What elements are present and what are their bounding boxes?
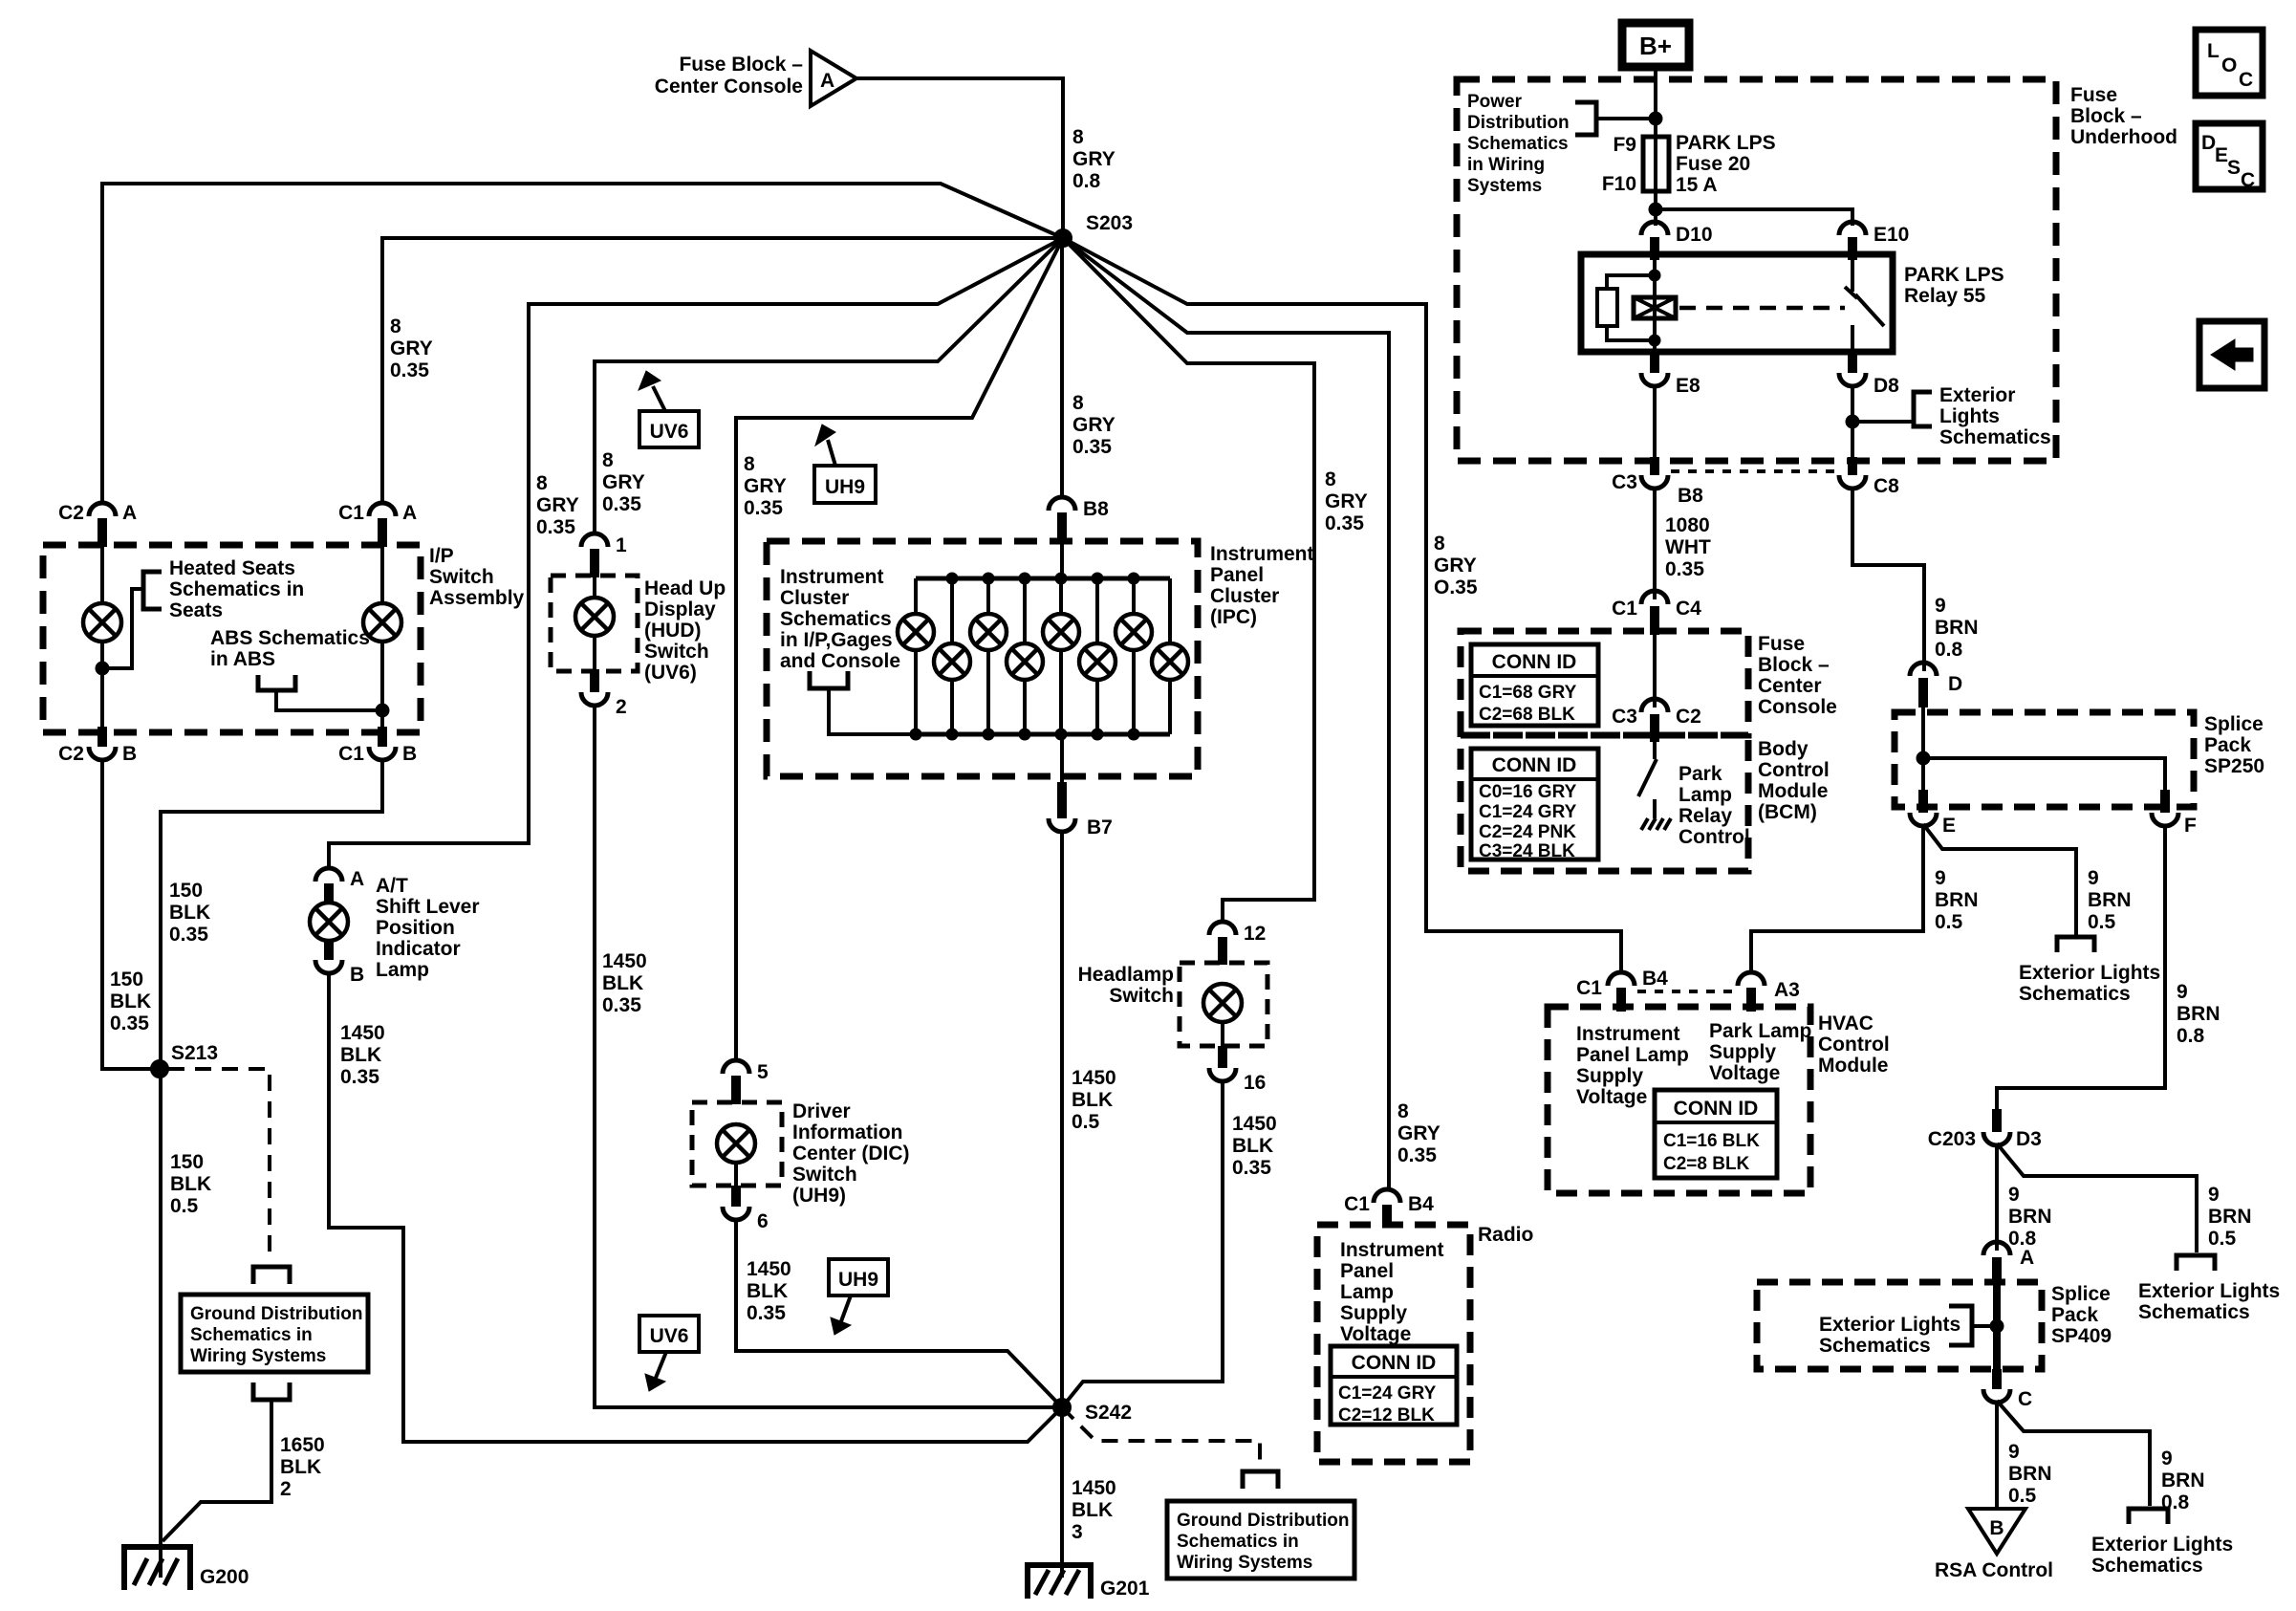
svg-text:(BCM): (BCM) <box>1758 801 1817 823</box>
svg-text:0.5: 0.5 <box>1935 911 1963 933</box>
svg-text:1080: 1080 <box>1665 514 1710 536</box>
label 150 BLK 0.35 (left) <box>110 969 151 1034</box>
svg-text:F9: F9 <box>1613 134 1636 156</box>
dashed box DIC switch <box>692 1102 782 1186</box>
connector F <box>2152 790 2197 837</box>
svg-text:Voltage: Voltage <box>1576 1086 1647 1108</box>
svg-text:S203: S203 <box>1086 212 1133 234</box>
label Exterior Lights Schematics (below SP250) <box>2019 962 2160 1005</box>
svg-text:0.35: 0.35 <box>536 516 575 538</box>
wire D3 to A (SP409) <box>1995 1143 1999 1251</box>
svg-text:UH9: UH9 <box>838 1269 878 1291</box>
svg-text:0.35: 0.35 <box>1397 1144 1437 1166</box>
lamp DIC switch <box>717 1124 755 1163</box>
svg-text:Instrument: Instrument <box>1576 1023 1680 1045</box>
connector A (A/T lamp) <box>315 868 364 904</box>
label Park Lamp Relay Control <box>1679 763 1750 848</box>
svg-text:(HUD): (HUD) <box>644 620 701 642</box>
svg-text:C1=68 GRY: C1=68 GRY <box>1479 683 1577 703</box>
splice S242 <box>1053 1399 1132 1424</box>
svg-text:I/P: I/P <box>429 545 454 567</box>
wire D through splice pack to E <box>1921 708 1925 811</box>
svg-text:in I/P,Gages: in I/P,Gages <box>780 629 893 651</box>
svg-text:Schematics: Schematics <box>1939 426 2051 448</box>
wire bracket to B+ feed <box>1596 117 1656 120</box>
IPC bottom bus <box>916 732 1170 737</box>
svg-text:C1: C1 <box>1576 977 1602 999</box>
svg-text:Relay: Relay <box>1679 805 1732 827</box>
splice S203 <box>1054 212 1133 247</box>
label Power Distribution Schematics in Wiring Systems <box>1467 92 1570 196</box>
label ABS Schematics in ABS <box>210 627 370 670</box>
svg-text:3: 3 <box>1072 1521 1083 1543</box>
svg-text:8: 8 <box>390 316 401 337</box>
svg-text:Park: Park <box>1679 763 1722 785</box>
wire C8 to D connector <box>1852 487 1924 671</box>
svg-text:150: 150 <box>170 1151 204 1173</box>
wire C1/A to lamp <box>380 545 384 604</box>
wire B8 into IPC top bus <box>1060 543 1064 578</box>
svg-text:BLK: BLK <box>747 1280 788 1302</box>
label Splice Pack SP250 <box>2204 713 2264 777</box>
svg-text:Radio: Radio <box>1478 1224 1533 1246</box>
wire C2/B down to S213 <box>102 758 159 1069</box>
bracket ground distribution (S242) <box>1243 1471 1278 1489</box>
svg-text:BRN: BRN <box>1935 889 1979 911</box>
bracket exterior lights (inside SP409) <box>1949 1306 1972 1345</box>
svg-text:8: 8 <box>744 453 755 475</box>
svg-text:E: E <box>2215 144 2228 166</box>
wire C branch to exterior lights <box>1997 1401 2150 1506</box>
node junction on D8 wire <box>1846 415 1859 428</box>
svg-text:Fuse: Fuse <box>1758 633 1805 655</box>
label 1450 BLK 0.35 (HUD wire) <box>602 950 647 1016</box>
svg-text:Exterior Lights: Exterior Lights <box>2138 1280 2280 1302</box>
svg-text:Panel: Panel <box>1210 564 1264 586</box>
svg-text:BRN: BRN <box>2088 889 2132 911</box>
svg-text:Center: Center <box>1758 675 1822 697</box>
label Park Lamp Supply Voltage (HVAC) <box>1709 1020 1811 1084</box>
IPC top bus <box>916 577 1170 581</box>
svg-text:C4: C4 <box>1676 598 1701 620</box>
CONN ID box (fuse block center console) <box>1471 644 1598 726</box>
svg-text:Heated Seats: Heated Seats <box>169 557 295 579</box>
lamp HUD switch <box>575 598 614 636</box>
svg-text:0.35: 0.35 <box>1072 436 1112 458</box>
wire E down to HVAC A3 <box>1751 824 1923 974</box>
svg-text:BRN: BRN <box>2008 1206 2052 1228</box>
label 150 BLK 0.35 (right) <box>169 880 210 946</box>
dashed wire S242 to ground distribution bracket (right) <box>1062 1407 1260 1468</box>
connector A (SP409) <box>1983 1242 2034 1282</box>
node junction at power distribution tap <box>1649 112 1662 125</box>
wire A/T B to S242 <box>329 971 1062 1442</box>
label Driver Information Center (DIC) Switch (UH9) <box>792 1100 910 1207</box>
svg-text:Console: Console <box>1758 696 1837 718</box>
svg-text:0.35: 0.35 <box>169 924 208 946</box>
wire S203 to C1/A <box>382 238 1063 505</box>
bracket power distribution <box>1575 102 1596 135</box>
svg-text:Supply: Supply <box>1709 1041 1776 1063</box>
lamp IPC top 3 <box>1043 578 1079 734</box>
svg-text:A: A <box>820 70 834 92</box>
label PARK LPS Relay 55 <box>1904 264 2004 307</box>
svg-text:B4: B4 <box>1642 968 1668 990</box>
label 1650 BLK 2 <box>280 1434 325 1500</box>
svg-text:GRY: GRY <box>1072 414 1116 436</box>
svg-text:Exterior Lights: Exterior Lights <box>2019 962 2160 984</box>
svg-text:Block –: Block – <box>2070 105 2142 127</box>
wire C1/C4 through fuse block <box>1653 635 1657 708</box>
svg-text:8: 8 <box>1325 468 1336 490</box>
label box UH9 (bottom) with arrow <box>829 1259 888 1335</box>
label 8 GRY 0.8 <box>1072 126 1116 192</box>
svg-text:A: A <box>2020 1247 2034 1269</box>
svg-text:Fuse 20: Fuse 20 <box>1676 153 1750 175</box>
relay coil resistor branch <box>1597 270 1660 346</box>
label Splice Pack SP409 <box>2051 1283 2112 1347</box>
label Exterior Lights Schematics (inside SP409) <box>1819 1314 1960 1357</box>
connector B7 (IPC) <box>1049 734 1113 838</box>
svg-text:BRN: BRN <box>2208 1206 2252 1228</box>
wire ground distribution to G200 <box>162 1400 271 1541</box>
label 1450 BLK 0.35 (A/T wire) <box>340 1022 385 1088</box>
svg-text:Center (DIC): Center (DIC) <box>792 1143 910 1165</box>
lamp IPC top 2 <box>970 578 1007 734</box>
wire S213 down to G200 <box>159 1069 162 1562</box>
label 9 BRN 0.8 (C branch) <box>2161 1448 2205 1513</box>
svg-text:BRN: BRN <box>2177 1003 2220 1025</box>
node dots IPC top bus <box>946 573 1139 584</box>
dashed wire S213 to ground distribution bracket <box>168 1069 270 1262</box>
wire pin1 to HUD lamp <box>593 577 596 599</box>
svg-text:D3: D3 <box>2016 1128 2042 1150</box>
svg-text:A/T: A/T <box>376 875 408 897</box>
svg-text:B7: B7 <box>1087 816 1113 838</box>
svg-text:A: A <box>402 502 417 524</box>
label Heated Seats Schematics in Seats <box>169 557 304 621</box>
svg-text:GRY: GRY <box>536 494 579 516</box>
label 8 GRY O.35 (HVAC wire) <box>1434 533 1478 599</box>
svg-text:Lamp: Lamp <box>1340 1281 1394 1303</box>
svg-text:Panel: Panel <box>1340 1260 1394 1282</box>
svg-text:Body: Body <box>1758 738 1809 760</box>
bracket exterior lights (underhood) <box>1914 392 1932 426</box>
label 8 GRY 0.35 (C1 wire) <box>390 316 433 381</box>
svg-text:S213: S213 <box>171 1042 218 1064</box>
svg-text:B: B <box>122 743 137 765</box>
wire E8 down to C3/B8 <box>1653 384 1657 474</box>
svg-text:0.8: 0.8 <box>2177 1025 2205 1047</box>
svg-text:8: 8 <box>1434 533 1445 555</box>
node dots IPC bottom bus <box>910 729 1139 740</box>
dashed box Body Control Module <box>1461 735 1748 871</box>
svg-text:L: L <box>2207 40 2220 62</box>
svg-text:Seats: Seats <box>169 599 223 621</box>
svg-text:C1: C1 <box>338 743 364 765</box>
connector triangle A Fuse Block Center Console <box>655 51 856 106</box>
svg-text:Switch: Switch <box>1109 985 1174 1007</box>
svg-text:0.35: 0.35 <box>390 359 429 381</box>
lamp I/P switch right <box>363 603 401 642</box>
bracket heated seats schematics <box>143 572 162 609</box>
svg-text:O.35: O.35 <box>1434 577 1478 599</box>
wire S203 to DIC switch <box>736 238 1063 1062</box>
connector C203/D3 <box>1928 1109 2042 1150</box>
svg-text:Switch: Switch <box>792 1164 857 1186</box>
svg-text:Supply: Supply <box>1340 1302 1407 1324</box>
label A/T Shift Lever Position Indicator Lamp <box>376 875 480 981</box>
svg-text:D: D <box>1948 673 1962 695</box>
connector D (splice pack SP250) <box>1910 663 1962 708</box>
svg-text:0.35: 0.35 <box>1665 558 1704 580</box>
wire C3/B8 to C1/C4 <box>1653 487 1657 599</box>
svg-text:150: 150 <box>110 969 143 991</box>
bracket exterior lights (below SP250) <box>2057 937 2094 952</box>
CONN ID box (HVAC) <box>1655 1090 1777 1178</box>
label 8 GRY 0.35 (IPC wire) <box>1072 392 1116 458</box>
label 1450 BLK 0.35 (DIC wire) <box>747 1258 791 1324</box>
wire S203 to HUD switch <box>595 238 1063 535</box>
node junction SP409 <box>1990 1319 2004 1333</box>
svg-text:Control: Control <box>1758 759 1830 781</box>
svg-text:Lamp: Lamp <box>1679 784 1732 806</box>
svg-text:150: 150 <box>169 880 203 902</box>
svg-text:1450: 1450 <box>1232 1113 1277 1135</box>
svg-text:GRY: GRY <box>744 475 787 497</box>
label Body Control Module (BCM) <box>1758 738 1830 823</box>
svg-text:Fuse Block –: Fuse Block – <box>679 54 803 76</box>
svg-text:WHT: WHT <box>1665 536 1711 558</box>
connector pin 12 (headlamp) <box>1209 922 1266 965</box>
connector E10 <box>1839 222 1909 260</box>
svg-text:8: 8 <box>536 472 548 494</box>
svg-text:8: 8 <box>1397 1100 1409 1122</box>
label box UV6 (top) with arrow <box>639 371 699 447</box>
svg-text:0.5: 0.5 <box>1072 1111 1100 1133</box>
dashed box Head Up Display switch <box>551 576 638 671</box>
svg-text:S242: S242 <box>1085 1402 1132 1424</box>
svg-text:BRN: BRN <box>2008 1463 2052 1485</box>
svg-text:BLK: BLK <box>602 972 643 994</box>
svg-text:9: 9 <box>1935 867 1946 889</box>
svg-text:RSA Control: RSA Control <box>1935 1559 2053 1581</box>
svg-text:GRY: GRY <box>1072 148 1116 170</box>
svg-text:1650: 1650 <box>280 1434 325 1456</box>
connector C3/B8 (underhood output) <box>1612 457 1703 507</box>
bracket exterior lights (bottom right) <box>2129 1509 2168 1524</box>
bracket exterior lights (right of SP409) <box>2177 1255 2215 1271</box>
box Ground Distribution Schematics in Wiring Systems (right) <box>1167 1501 1354 1578</box>
label Instrument Panel Lamp Supply Voltage (HVAC) <box>1576 1023 1689 1108</box>
wire S203 to C2/A <box>102 184 1063 505</box>
connector D8 <box>1839 352 1899 397</box>
label 9 BRN 0.8 (C8 wire) <box>1935 595 1979 661</box>
box DESC <box>2196 123 2263 191</box>
svg-text:B+: B+ <box>1639 32 1672 60</box>
svg-text:C2: C2 <box>1676 706 1701 728</box>
svg-text:Exterior: Exterior <box>1939 384 2015 406</box>
svg-text:D: D <box>2201 132 2216 154</box>
dashed box I/P switch assembly / heated seats <box>43 545 421 732</box>
svg-text:Instrument: Instrument <box>1210 543 1314 565</box>
wire D10 through relay coil <box>1653 254 1657 352</box>
wire junction to heated-seats bracket <box>102 589 143 668</box>
svg-text:9: 9 <box>2088 867 2099 889</box>
svg-text:Voltage: Voltage <box>1340 1323 1411 1345</box>
connector C3/C2 <box>1612 699 1701 742</box>
svg-text:0.35: 0.35 <box>747 1302 786 1324</box>
svg-text:1450: 1450 <box>340 1022 385 1044</box>
svg-text:Park Lamp: Park Lamp <box>1709 1020 1811 1042</box>
label 150 BLK 0.5 <box>170 1151 211 1217</box>
svg-text:Splice: Splice <box>2204 713 2264 735</box>
svg-text:Ground Distribution: Ground Distribution <box>190 1304 362 1324</box>
ground symbol BCM <box>1641 818 1671 830</box>
svg-text:B: B <box>402 743 417 765</box>
ground G201 <box>1028 1565 1150 1600</box>
connector B (A/T lamp) <box>315 939 364 986</box>
svg-text:C203: C203 <box>1928 1128 1976 1150</box>
label I/P Switch Assembly <box>429 545 525 609</box>
svg-text:15 A: 15 A <box>1676 174 1718 196</box>
svg-text:A: A <box>122 502 137 524</box>
svg-text:1: 1 <box>616 534 627 556</box>
svg-text:S: S <box>2227 157 2241 179</box>
svg-text:Switch: Switch <box>429 566 494 588</box>
label 9 BRN 0.5 (branch wire) <box>2088 867 2132 933</box>
connector C2/A <box>58 502 137 547</box>
svg-text:(IPC): (IPC) <box>1210 606 1257 628</box>
svg-text:C1: C1 <box>338 502 364 524</box>
connector C1/B4 (radio) <box>1344 1189 1434 1227</box>
svg-text:Relay 55: Relay 55 <box>1904 285 1986 307</box>
label Headlamp Switch <box>1078 964 1174 1007</box>
svg-text:C1: C1 <box>1344 1193 1370 1215</box>
svg-text:Schematics in: Schematics in <box>190 1325 313 1345</box>
svg-text:BLK: BLK <box>1232 1135 1273 1157</box>
connector C1/B4 (HVAC) <box>1576 968 1668 1012</box>
svg-text:GRY: GRY <box>602 471 645 493</box>
wire junction to exterior lights bracket <box>1852 420 1914 424</box>
svg-text:(UH9): (UH9) <box>792 1185 846 1207</box>
svg-text:C0=16 GRY: C0=16 GRY <box>1479 782 1577 802</box>
svg-text:Instrument: Instrument <box>1340 1239 1444 1261</box>
wire SP250 junction to F <box>1923 758 2165 811</box>
label Exterior Lights Schematics (bottom right) <box>2091 1534 2233 1577</box>
relay coil crossed box <box>1634 297 1676 318</box>
svg-text:Exterior Lights: Exterior Lights <box>1819 1314 1960 1336</box>
label 8 GRY 0.35 (DIC wire) <box>744 453 787 519</box>
svg-text:9: 9 <box>2177 981 2188 1003</box>
svg-text:GRY: GRY <box>1397 1122 1440 1144</box>
svg-text:Switch: Switch <box>644 641 709 663</box>
svg-text:8: 8 <box>1072 392 1084 414</box>
wire bracket to IPC bottom bus <box>829 688 916 734</box>
label Head Up Display (HUD) Switch (UV6) <box>644 577 726 684</box>
connector pin 2 (HUD) <box>581 636 627 718</box>
lamp A/T shift lever <box>310 903 348 941</box>
svg-text:PARK LPS: PARK LPS <box>1676 132 1776 154</box>
lamp IPC bottom 3 <box>1079 578 1116 734</box>
svg-text:F10: F10 <box>1602 173 1636 195</box>
label Fuse Block Center Console <box>1758 633 1837 718</box>
label 1450 BLK 0.35 (headlamp wire) <box>1232 1113 1277 1179</box>
label 8 GRY 0.35 (radio wire) <box>1397 1100 1440 1166</box>
svg-text:C: C <box>2018 1388 2032 1410</box>
relay box PARK LPS Relay 55 <box>1581 254 1893 352</box>
svg-text:0.8: 0.8 <box>1935 639 1963 661</box>
svg-text:5: 5 <box>757 1061 769 1083</box>
lamp headlamp switch <box>1203 984 1242 1022</box>
svg-text:GRY: GRY <box>1434 555 1477 577</box>
label 8 GRY 0.35 (HUD wire) <box>602 449 645 515</box>
svg-text:9: 9 <box>2008 1184 2020 1206</box>
svg-text:CONN ID: CONN ID <box>1492 754 1577 776</box>
svg-text:1450: 1450 <box>602 950 647 972</box>
connector C1/A <box>338 502 417 547</box>
label Exterior Lights Schematics (right of SP409) <box>2138 1280 2280 1323</box>
svg-text:B4: B4 <box>1408 1193 1434 1215</box>
svg-text:F: F <box>2184 815 2197 837</box>
svg-text:and Console: and Console <box>780 650 900 672</box>
connector pin 5 (DIC) <box>723 1060 769 1104</box>
wire B7 to S242 <box>1060 830 1064 1407</box>
svg-text:1450: 1450 <box>1072 1477 1116 1499</box>
wire C1/B down to S213 <box>161 758 382 1069</box>
svg-text:UV6: UV6 <box>650 1325 689 1347</box>
svg-text:UH9: UH9 <box>825 476 865 498</box>
svg-text:0.35: 0.35 <box>744 497 783 519</box>
BCM park lamp relay control switch <box>1638 742 1657 818</box>
wire C2/A to lamp <box>100 545 104 604</box>
wire D3 branch to exterior lights <box>1997 1143 2197 1252</box>
label Fuse Block Underhood <box>2070 84 2177 148</box>
svg-text:0.35: 0.35 <box>602 493 641 515</box>
connector pin 6 (DIC) <box>723 1163 769 1232</box>
svg-text:C1=16 BLK: C1=16 BLK <box>1663 1131 1760 1151</box>
wire S242 to G201 <box>1060 1416 1064 1578</box>
svg-text:BLK: BLK <box>1072 1499 1113 1521</box>
svg-text:E: E <box>1942 815 1956 837</box>
svg-text:in Wiring: in Wiring <box>1467 155 1545 175</box>
fuse PARK LPS F9/F10 <box>1602 132 1776 196</box>
svg-text:D8: D8 <box>1874 375 1899 397</box>
svg-text:9: 9 <box>2161 1448 2173 1469</box>
connector B8 (IPC) <box>1049 497 1109 543</box>
wire bracket to SP409 junction <box>1972 1324 1997 1328</box>
power feed B+ <box>1622 23 1689 67</box>
svg-text:Lamp: Lamp <box>376 959 429 981</box>
node junction SP250 <box>1917 751 1930 765</box>
wire S203 to Headlamp switch <box>1063 238 1314 924</box>
bracket ground distribution (S213) <box>253 1267 290 1284</box>
svg-text:Schematics: Schematics <box>2019 983 2131 1005</box>
svg-text:Module: Module <box>1818 1055 1889 1077</box>
svg-text:Wiring Systems: Wiring Systems <box>190 1346 326 1366</box>
CONN ID box (radio) <box>1331 1346 1457 1426</box>
svg-text:BLK: BLK <box>170 1173 211 1195</box>
svg-text:6: 6 <box>757 1210 769 1232</box>
dashed box Fuse Block Underhood <box>1457 79 2056 461</box>
label Instrument Panel Lamp Supply Voltage (radio) <box>1340 1239 1444 1345</box>
svg-text:C3: C3 <box>1612 706 1637 728</box>
svg-text:0.35: 0.35 <box>110 1012 149 1034</box>
svg-text:Supply: Supply <box>1576 1065 1643 1087</box>
svg-text:0.5: 0.5 <box>170 1195 199 1217</box>
svg-text:PARK LPS: PARK LPS <box>1904 264 2004 286</box>
label 9 BRN 0.8 (D3 wire) <box>2008 1184 2052 1250</box>
